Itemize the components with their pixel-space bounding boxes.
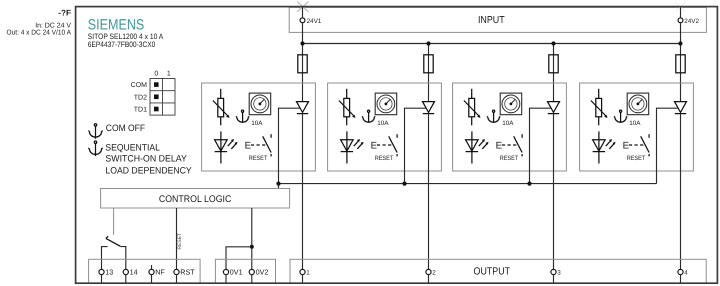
output terminal 3 [551, 269, 556, 274]
svg-text:E: E [245, 140, 251, 151]
svg-text:RST: RST [180, 268, 195, 277]
anchor symbol (load dependency), channel 2 [362, 110, 375, 123]
anchor symbol (load dependency), channel 4 [614, 110, 627, 123]
terminal NF [149, 269, 154, 274]
thyristor / electronic switch, channel 3 [548, 102, 560, 114]
svg-text:SIEMENS: SIEMENS [88, 17, 145, 34]
svg-text:0V2: 0V2 [256, 268, 269, 277]
terminal 0V1 [223, 269, 228, 274]
junction dot on control bus, channel 1 [276, 182, 280, 186]
svg-text:CONTROL LOGIC: CONTROL LOGIC [159, 194, 232, 205]
wire: control logic to remote on/off contact [113, 208, 115, 235]
wire: thyristor cathode down to output terminal 3 [553, 114, 555, 270]
wire: contact to terminal 14 [120, 247, 125, 270]
wire: control logic to terminal RST [176, 208, 178, 269]
gate wire from control, channel 4 [657, 108, 678, 183]
anchor symbol (load dependency), channel 3 [487, 110, 500, 123]
anchor icon 1 (COM OFF) [88, 124, 102, 139]
junction dot on input bus, channel 2 [426, 41, 430, 45]
svg-text:10A: 10A [251, 120, 263, 127]
terminal 13 [99, 269, 104, 274]
wire: channel 3 riser from input bus to fuse [553, 44, 555, 102]
connection marker X at 24V1 [297, 2, 308, 12]
adjustable resistor (current setpoint), channel 4 [591, 89, 608, 126]
stub above terminal NF [151, 265, 153, 269]
LED status indicator, channel 3 [466, 131, 489, 163]
adjustment dial (trip current knob), channel 2 [375, 93, 397, 115]
svg-text:10A: 10A [629, 120, 641, 127]
wire: 24V1 down to input bus [302, 23, 304, 43]
wire: channel 2 riser from input bus to fuse [428, 44, 430, 102]
CONTROL LOGIC box [101, 189, 290, 209]
svg-text:13: 13 [105, 268, 113, 277]
DIP switch TD2 position marker [154, 95, 159, 100]
output terminal 2 [426, 269, 431, 274]
thyristor / electronic switch, channel 4 [675, 102, 687, 114]
terminal 0V2 [249, 269, 254, 274]
channel 4 module box [580, 83, 694, 171]
wire: branch to terminal 0V1 [226, 247, 252, 269]
svg-text:RESET: RESET [249, 155, 268, 162]
svg-text:4: 4 [684, 270, 688, 277]
wire: 24V2 down to input bus [680, 23, 682, 43]
DIP switch table grid [150, 79, 175, 116]
svg-text:RESET: RESET [375, 155, 394, 162]
anchor symbol (load dependency), channel 1 [236, 110, 249, 123]
svg-text:SEQUENTIAL: SEQUENTIAL [105, 142, 159, 152]
gate wire from control, channel 1 [279, 108, 300, 183]
wire: frame top to terminal 24V1 [302, 7, 304, 18]
svg-text:OUTPUT: OUTPUT [474, 266, 511, 277]
svg-text:RESET: RESET [177, 233, 183, 250]
svg-text:6EP4437-7FB00-3CX0: 6EP4437-7FB00-3CX0 [88, 40, 156, 49]
adjustable resistor (current setpoint), channel 2 [339, 89, 356, 126]
wire: thyristor cathode down to output terminal 2 [428, 114, 430, 270]
0V terminal box [215, 259, 275, 283]
svg-text:1: 1 [306, 270, 310, 277]
OUTPUT bus box [290, 259, 706, 283]
svg-text:10A: 10A [502, 120, 514, 127]
svg-text:0V1: 0V1 [230, 268, 243, 277]
signal terminal box (13 14 NF RST) [89, 259, 201, 283]
svg-text:COM OFF: COM OFF [106, 123, 146, 133]
LED status indicator, channel 4 [593, 131, 616, 163]
wire: frame top to terminal 24V2 [680, 7, 682, 18]
wire: contact to terminal 13 [102, 247, 108, 270]
terminal RST [174, 269, 179, 274]
svg-text:SWITCH-ON DELAY: SWITCH-ON DELAY [105, 154, 186, 164]
INPUT bus box [289, 7, 706, 32]
adjustable resistor (current setpoint), channel 1 [213, 89, 230, 126]
wire: control bus drop to control logic [278, 184, 280, 189]
wire: channel 1 riser from input bus to fuse [302, 44, 304, 102]
channel 2 module box [328, 83, 442, 171]
svg-text:2: 2 [432, 270, 436, 277]
terminal 14 [123, 269, 128, 274]
wire: channel 4 riser from input bus to fuse [680, 44, 682, 102]
svg-text:TD1: TD1 [134, 107, 147, 114]
adjustment dial (trip current knob), channel 3 [500, 93, 522, 115]
adjustment dial (trip current knob), channel 1 [249, 93, 271, 115]
input terminal 24V1 [300, 18, 305, 23]
fuse F3 [549, 55, 558, 73]
junction dot on control bus, channel 2 [402, 182, 406, 186]
svg-text:NF: NF [155, 268, 165, 277]
svg-text:RESET: RESET [500, 155, 519, 162]
svg-text:LOAD DEPENDENCY: LOAD DEPENDENCY [105, 165, 191, 175]
wire: control logic to terminal 0V2 [251, 208, 253, 269]
svg-text:-?F: -?F [58, 9, 71, 18]
fuse F1 [298, 55, 307, 73]
svg-text:COM: COM [131, 82, 148, 89]
svg-text:0: 0 [154, 71, 158, 78]
fuse F2 [424, 55, 433, 73]
svg-text:24V1: 24V1 [307, 18, 322, 25]
input distribution bus [303, 43, 681, 45]
junction dot on input bus, channel 3 [551, 41, 555, 45]
svg-text:10A: 10A [377, 120, 389, 127]
gate wire from control, channel 3 [530, 108, 551, 183]
junction dot above 0V2 [250, 245, 254, 249]
svg-text:E: E [496, 140, 502, 151]
svg-text:TD2: TD2 [134, 94, 147, 101]
svg-text:Out: 4 x DC 24 V/10 A: Out: 4 x DC 24 V/10 A [7, 28, 72, 36]
thyristor / electronic switch, channel 2 [423, 102, 435, 114]
wire: thyristor cathode down to output terminal 4 [680, 114, 682, 270]
svg-text:24V2: 24V2 [684, 18, 699, 25]
junction dot on input bus, channel 1 [300, 41, 304, 45]
channel 1 module box [202, 83, 316, 171]
control bus (gate lines to control logic) [279, 183, 657, 185]
svg-text:14: 14 [130, 268, 138, 277]
adjustment dial (trip current knob), channel 4 [627, 93, 649, 115]
LED status indicator, channel 2 [341, 131, 364, 163]
junction dot on input bus, channel 4 [678, 41, 682, 45]
DIP switch TD1 position marker [154, 107, 159, 112]
output terminal 4 [678, 269, 683, 274]
remote contact blade (switch 13-14) [106, 236, 121, 246]
LED status indicator, channel 1 [215, 131, 238, 163]
DIP switch COM position marker [154, 82, 159, 87]
adjustable resistor (current setpoint), channel 3 [464, 89, 481, 126]
output terminal 1 [300, 269, 305, 274]
svg-text:3: 3 [557, 270, 561, 277]
gate wire from control, channel 2 [405, 108, 426, 183]
connection marker X at 24V2 [676, 2, 686, 11]
input terminal 24V2 [678, 18, 683, 23]
anchor icon 2 (sequential switch-on) [88, 141, 102, 156]
svg-text:E: E [623, 140, 629, 151]
channel 3 module box [453, 83, 567, 171]
thyristor / electronic switch, channel 1 [297, 102, 309, 114]
svg-text:1: 1 [167, 71, 171, 78]
fuse F4 [676, 55, 685, 73]
svg-text:RESET: RESET [627, 155, 646, 162]
wire: thyristor cathode down to output terminal 1 [302, 114, 304, 270]
junction dot on control bus, channel 3 [527, 182, 531, 186]
svg-text:E: E [371, 140, 377, 151]
svg-text:INPUT: INPUT [478, 15, 505, 26]
